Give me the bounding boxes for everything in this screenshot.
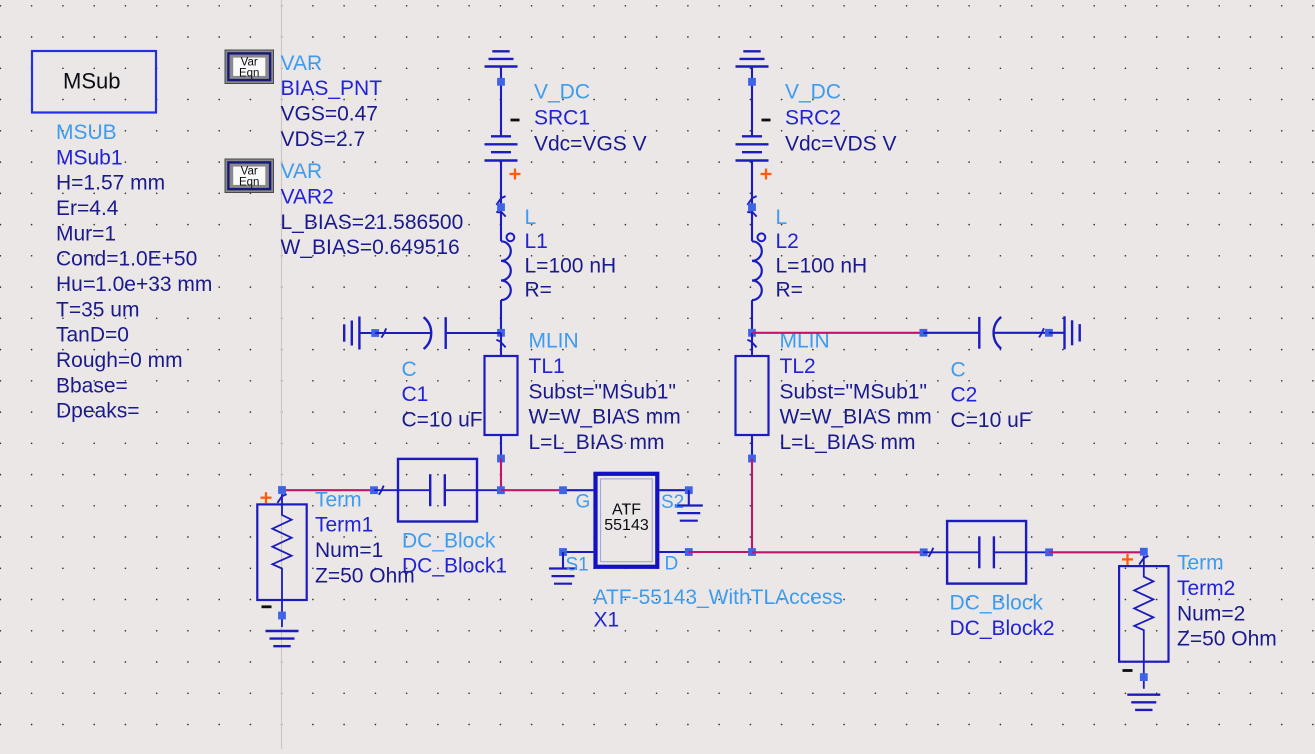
minus sign Term1 (262, 605, 272, 608)
TL2 labels MLIN (780, 330, 932, 454)
port Term1 (257, 494, 306, 627)
plus sign Term2 (1122, 554, 1133, 565)
svg-text:X1: X1 (594, 609, 620, 632)
svg-text:C=10 uF: C=10 uF (951, 409, 1032, 432)
svg-text:R=: R= (525, 279, 552, 302)
svg-text:D: D (665, 554, 679, 575)
wire S1 to X1 (563, 551, 593, 553)
svg-text:C2: C2 (951, 384, 978, 407)
svg-text:L=L_BIAS mm: L=L_BIAS mm (529, 431, 665, 454)
svg-text:W_BIAS=0.649516: W_BIAS=0.649516 (281, 236, 460, 259)
wire G to X1 (563, 489, 593, 491)
wire DC_Block1 to G (501, 489, 563, 491)
VAR BIAS_PNT text (281, 52, 383, 151)
junction C1 pin1 (371, 329, 379, 337)
pin marker DC_Block2 pin1 (929, 548, 934, 557)
page boundary line (281, 0, 283, 749)
node junction above TL2 (748, 329, 756, 337)
svg-text:L: L (776, 206, 788, 229)
wire ground to SRC2 (751, 67, 753, 137)
svg-text:VDS=2.7: VDS=2.7 (281, 128, 366, 151)
pin marker SRC2 pin2 (747, 196, 756, 205)
V_DC source SRC1 (485, 120, 521, 180)
pin marker L2 pin1 (747, 212, 756, 217)
svg-text:MSub: MSub (63, 69, 120, 94)
ground (S1) (549, 569, 577, 584)
DC_Block2 labels (950, 592, 1055, 640)
L2 labels (776, 206, 868, 302)
junction DC_Block1 pin1 (370, 486, 378, 494)
pin marker TL1 pin1 (496, 340, 505, 348)
svg-text:Vdc=VGS V: Vdc=VGS V (534, 133, 647, 156)
wire X1 to S2 (659, 489, 689, 491)
wire TL2 pin2 to output node (751, 459, 753, 553)
junction (ground pin of SRC2) (748, 78, 756, 86)
svg-text:Eqn: Eqn (239, 176, 259, 188)
svg-text:Rough=0 mm: Rough=0 mm (56, 349, 183, 372)
wire L1 to node (500, 300, 502, 333)
junction Term2 pin (1140, 548, 1148, 556)
ground (Term1) (266, 631, 299, 646)
SRC2 labels V_DC (785, 80, 896, 155)
wire X1 to D (659, 551, 689, 553)
svg-text:L=L_BIAS mm: L=L_BIAS mm (780, 431, 916, 454)
MSUB parameter text MSub1 (56, 121, 212, 423)
svg-text:W=W_BIAS mm: W=W_BIAS mm (780, 406, 932, 429)
svg-text:VGS=0.47: VGS=0.47 (281, 103, 378, 126)
wire node to TL2 (751, 333, 753, 356)
svg-text:MSub1: MSub1 (56, 146, 123, 169)
svg-text:Subst="MSub1": Subst="MSub1" (529, 380, 676, 403)
wire ground to SRC1 (500, 67, 502, 137)
Term1 labels (315, 488, 415, 587)
svg-text:L2: L2 (776, 230, 799, 253)
junction TL1 pin2 (497, 455, 505, 463)
svg-text:Eqn: Eqn (239, 67, 259, 79)
svg-text:Dpeaks=: Dpeaks= (56, 400, 139, 423)
svg-text:MLIN: MLIN (529, 330, 579, 353)
svg-text:Term: Term (1177, 552, 1224, 575)
ground (Term2) (1127, 695, 1160, 710)
svg-text:V_DC: V_DC (534, 80, 590, 103)
svg-text:S2: S2 (661, 492, 684, 513)
junction pin S2 (685, 486, 693, 494)
svg-text:Num=1: Num=1 (315, 539, 383, 562)
junction DC_Block2 pin1 (920, 548, 928, 556)
svg-text:ATF: ATF (612, 501, 641, 518)
svg-text:DC_Block: DC_Block (402, 529, 496, 552)
ground (top of SRC1) (485, 51, 518, 66)
substrate box MSub (32, 51, 156, 113)
svg-text:DC_Block: DC_Block (950, 592, 1044, 615)
junction (SRC1-L1) (497, 203, 505, 211)
ground (C1) (344, 317, 359, 350)
junction DC_Block2 pin2 (1045, 548, 1053, 556)
svg-text:Cond=1.0E+50: Cond=1.0E+50 (56, 248, 197, 271)
svg-text:C: C (951, 358, 966, 381)
wire D to output node (689, 551, 752, 553)
junction C2 pin1 (920, 329, 928, 337)
wire node TL2 to C2 (752, 332, 923, 334)
svg-text:Z=50 Ohm: Z=50 Ohm (315, 564, 415, 587)
junction Term1 pin (278, 486, 286, 494)
ground (top of SRC2) (736, 51, 769, 66)
pin marker C2 pin2 (1039, 328, 1044, 337)
pin marker SRC1 pin2 (496, 196, 505, 205)
junction DC_Block1 pin2 / node (497, 486, 505, 494)
transistor X1 ATF-55143 block (596, 474, 658, 567)
pin marker C1 pin1 (381, 328, 386, 337)
L1 labels (525, 206, 617, 302)
V_DC source SRC2 (736, 120, 772, 180)
junction pin G (559, 486, 567, 494)
VAR equation icon (BIAS_PNT) (225, 50, 274, 84)
wire SRC1 to L1 (500, 161, 502, 242)
svg-text:V_DC: V_DC (785, 80, 841, 103)
svg-text:VAR2: VAR2 (281, 185, 334, 208)
svg-text:Term2: Term2 (1177, 577, 1235, 600)
svg-text:Subst="MSub1": Subst="MSub1" (780, 380, 927, 403)
wire node to TL1 (500, 333, 502, 356)
DC block DC_Block1 (374, 459, 501, 522)
wire TL2 to pin2 (751, 435, 753, 459)
svg-text:H=1.57 mm: H=1.57 mm (56, 172, 165, 195)
junction pin D (685, 548, 693, 556)
pin marker TL2 pin1 (747, 340, 756, 348)
microstrip line TL2 (736, 356, 769, 435)
Term2 labels (1177, 552, 1277, 651)
svg-text:Vdc=VDS V: Vdc=VDS V (785, 133, 896, 156)
svg-text:Er=4.4: Er=4.4 (56, 197, 119, 220)
wire C2 to ground (1049, 332, 1065, 334)
junction Term2 bottom (1140, 673, 1148, 681)
TL1 labels MLIN (529, 330, 681, 454)
svg-text:Term: Term (315, 488, 362, 511)
svg-text:C1: C1 (402, 383, 429, 406)
svg-text:R=: R= (776, 279, 803, 302)
svg-text:VAR: VAR (281, 52, 323, 75)
wire S1 to ground (562, 552, 564, 569)
VAR equation icon (VAR2) (225, 159, 274, 193)
junction TL2 pin2 (748, 455, 756, 463)
svg-text:Hu=1.0e+33 mm: Hu=1.0e+33 mm (56, 273, 212, 296)
svg-text:BIAS_PNT: BIAS_PNT (281, 77, 383, 100)
svg-text:Z=50 Ohm: Z=50 Ohm (1177, 628, 1277, 651)
svg-text:TanD=0: TanD=0 (56, 324, 129, 347)
ground (S2) (675, 506, 703, 521)
port Term2 (1119, 556, 1168, 689)
C2 labels (951, 358, 1032, 432)
svg-text:TL2: TL2 (780, 355, 816, 378)
wire TL1 to pin2 (500, 435, 502, 459)
svg-text:L=100 nH: L=100 nH (525, 254, 617, 277)
wire TL1 pin2 to input node (500, 459, 502, 491)
wire S2 to ground (688, 490, 690, 505)
svg-text:C: C (402, 358, 417, 381)
node junction above TL1 (497, 329, 505, 337)
svg-text:G: G (576, 491, 591, 512)
wire Term1 to DC_Block1 (282, 489, 374, 491)
svg-text:Num=2: Num=2 (1177, 602, 1245, 625)
SRC1 labels V_DC (534, 80, 647, 155)
wire SRC2 to L2 (751, 161, 753, 242)
svg-text:Term1: Term1 (315, 514, 373, 537)
DC_Block1 labels (402, 529, 507, 577)
junction Term1 bottom (278, 612, 286, 620)
pin marker DC_Block1 pin1 (379, 486, 384, 495)
svg-text:ATF-55143_WithTLAccess: ATF-55143_WithTLAccess (594, 586, 843, 609)
junction (ground pin of SRC1) (497, 78, 505, 86)
ground (C2) (1065, 316, 1080, 349)
svg-text:SRC1: SRC1 (534, 107, 590, 130)
svg-text:L_BIAS=21.586500: L_BIAS=21.586500 (281, 211, 464, 234)
svg-text:TL1: TL1 (529, 355, 565, 378)
junction C2 pin2 (1045, 329, 1053, 337)
junction (SRC2-L2) (748, 203, 756, 211)
C1 labels (402, 358, 483, 432)
svg-text:DC_Block1: DC_Block1 (402, 555, 507, 578)
wire output node to DC_Block2 (752, 551, 924, 553)
DC block DC_Block2 (923, 521, 1050, 584)
VAR VAR2 text (281, 160, 464, 259)
svg-text:VAR: VAR (281, 160, 323, 183)
wire C1 ground lead (359, 332, 375, 334)
svg-text:L=100 nH: L=100 nH (776, 254, 868, 277)
X1 labels (594, 586, 843, 632)
capacitor C1 (375, 317, 501, 349)
capacitor C2 (923, 317, 1049, 349)
svg-text:DC_Block2: DC_Block2 (950, 617, 1055, 640)
svg-text:L1: L1 (525, 230, 548, 253)
svg-text:Mur=1: Mur=1 (56, 222, 116, 245)
svg-text:T=35 um: T=35 um (56, 298, 139, 321)
svg-text:W=W_BIAS mm: W=W_BIAS mm (529, 406, 681, 429)
svg-text:L: L (525, 206, 537, 229)
inductor L1 (501, 233, 514, 300)
junction pin S1 (559, 548, 567, 556)
inductor L2 (752, 233, 765, 300)
svg-text:S1: S1 (566, 555, 589, 576)
wire DC_Block2 to Term2 (1049, 551, 1144, 553)
minus sign Term2 (1123, 669, 1133, 672)
svg-text:C=10 uF: C=10 uF (402, 409, 483, 432)
svg-text:55143: 55143 (604, 517, 649, 534)
microstrip line TL1 (485, 356, 518, 435)
svg-text:Bbase=: Bbase= (56, 374, 128, 397)
pin marker Term2 (1139, 556, 1148, 565)
svg-text:MSUB: MSUB (56, 121, 117, 144)
pin marker Term1 (277, 494, 286, 503)
output node junction (748, 548, 756, 556)
wire L2 to node (751, 300, 753, 333)
plus sign Term1 (261, 492, 272, 503)
svg-text:SRC2: SRC2 (785, 107, 841, 130)
pin marker L1 pin1 (496, 212, 505, 217)
